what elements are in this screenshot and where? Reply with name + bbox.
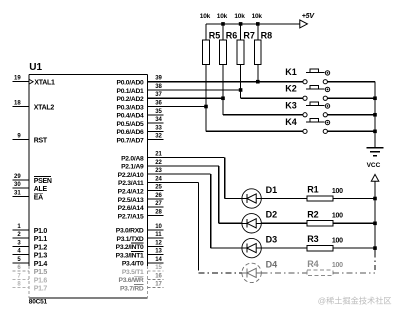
wire P2.2 to D3 xyxy=(147,174,242,248)
svg-text:D1: D1 xyxy=(266,185,278,195)
resistor R8 10k pull-up xyxy=(252,13,273,82)
diode D4 LED xyxy=(242,259,277,282)
U1 reference designator label xyxy=(29,62,42,73)
junction node R8/P0.0 xyxy=(256,80,260,84)
wire K2 to ground bus xyxy=(327,97,375,99)
pin 28 P2.7/A15 xyxy=(118,209,164,220)
svg-text:10k: 10k xyxy=(217,13,228,20)
svg-text:26: 26 xyxy=(155,193,162,199)
junction node R7 top xyxy=(239,22,243,26)
pin 30 ALE xyxy=(13,182,48,193)
svg-text:100: 100 xyxy=(332,237,343,244)
svg-text:15: 15 xyxy=(155,265,162,271)
svg-text:P1.1: P1.1 xyxy=(34,236,48,243)
pin 35 P0.4/AD4 xyxy=(117,109,164,120)
wire D1 to R1 xyxy=(261,198,307,200)
wire K3 to ground bus xyxy=(327,114,375,116)
svg-text:17: 17 xyxy=(155,282,162,288)
svg-text:XTAL1: XTAL1 xyxy=(34,80,55,87)
svg-text:K1: K1 xyxy=(285,67,297,77)
wire R1 to VCC rail xyxy=(333,198,375,200)
svg-text:37: 37 xyxy=(155,92,162,98)
svg-text:P3.7/RD: P3.7/RD xyxy=(120,285,144,292)
pin 29 PSEN xyxy=(13,174,52,185)
pin 5 P1.4 xyxy=(13,257,48,268)
+5V power arrow symbol xyxy=(300,13,316,28)
svg-text:29: 29 xyxy=(14,174,21,180)
resistor R5 10k pull-up xyxy=(200,13,221,106)
switch K2 push button xyxy=(285,84,329,101)
pin 6 P1.5 xyxy=(13,265,48,276)
pin 22 P2.1/A9 xyxy=(121,160,162,171)
svg-text:P2.0/A8: P2.0/A8 xyxy=(121,155,144,162)
svg-text:P0.6/AD6: P0.6/AD6 xyxy=(117,129,145,136)
resistor R1 100 xyxy=(307,185,343,202)
wire K4 to ground bus xyxy=(327,130,375,132)
svg-text:18: 18 xyxy=(14,101,21,107)
pin 32 P0.7/AD7 xyxy=(117,134,164,145)
pin 26 P2.5/A13 xyxy=(118,193,164,204)
svg-text:33: 33 xyxy=(155,125,162,131)
pin 19 XTAL1 xyxy=(13,76,55,87)
svg-text:31: 31 xyxy=(14,190,21,196)
VCC power symbol xyxy=(367,162,381,198)
svg-text:P0.2/AD2: P0.2/AD2 xyxy=(117,96,145,103)
pin 37 P0.2/AD2 xyxy=(117,92,163,103)
pin 9 RST xyxy=(13,134,48,145)
svg-text:P3.4/T0: P3.4/T0 xyxy=(122,261,144,268)
pin 21 P2.0/A8 xyxy=(121,152,162,163)
resistor R7 10k pull-up xyxy=(234,13,255,90)
switch K4 push button xyxy=(285,117,329,134)
svg-text:30: 30 xyxy=(14,182,21,188)
pin 10 P3.0/RXD xyxy=(116,224,164,235)
+5V power rail wire xyxy=(206,23,300,25)
junction node R7/P0.1 xyxy=(239,88,243,92)
wire D3 to R3 xyxy=(261,247,307,249)
pin 8 P1.7 xyxy=(13,282,48,293)
pin 4 P1.3 xyxy=(13,249,48,260)
diode D1 LED xyxy=(242,185,277,208)
pin 34 P0.5/AD5 xyxy=(117,117,164,128)
switch K3 push button xyxy=(285,100,329,117)
wire P0.0 to K1 xyxy=(147,81,303,83)
svg-text:13: 13 xyxy=(155,249,162,255)
svg-text:P0.1/AD1: P0.1/AD1 xyxy=(117,88,145,95)
junction node K4/bus xyxy=(373,130,377,134)
wire D2 to R2 xyxy=(261,222,307,224)
pin 36 P0.3/AD3 xyxy=(117,101,163,112)
svg-text:16: 16 xyxy=(155,273,162,279)
junction node K3/bus xyxy=(373,113,377,117)
svg-text:R4: R4 xyxy=(307,259,319,269)
svg-text:P1.2: P1.2 xyxy=(34,244,48,251)
diode D3 LED xyxy=(242,235,277,258)
svg-text:P2.4/A12: P2.4/A12 xyxy=(118,188,144,195)
svg-text:11: 11 xyxy=(155,232,162,238)
pin 3 P1.2 xyxy=(13,240,48,251)
svg-text:R5: R5 xyxy=(209,30,221,40)
svg-text:36: 36 xyxy=(155,101,162,107)
pin 24 P2.3/A11 xyxy=(118,176,163,187)
svg-text:P2.6/A14: P2.6/A14 xyxy=(118,205,144,212)
resistor R6 10k pull-up xyxy=(217,13,238,98)
svg-text:K4: K4 xyxy=(285,117,297,127)
pin 25 P2.4/A12 xyxy=(118,185,164,196)
svg-text:EA: EA xyxy=(34,194,43,201)
svg-text:+5V: +5V xyxy=(302,13,316,20)
svg-text:XTAL2: XTAL2 xyxy=(34,105,55,112)
svg-text:P2.7/A15: P2.7/A15 xyxy=(118,213,144,220)
svg-text:P0.0/AD0: P0.0/AD0 xyxy=(117,80,145,87)
svg-text:D4: D4 xyxy=(266,259,278,269)
wire D4 to R4 (dashed) xyxy=(261,272,307,274)
switch K1 push button xyxy=(285,67,329,84)
ground xyxy=(367,148,384,156)
svg-text:100: 100 xyxy=(332,188,343,195)
svg-text:P0.5/AD5: P0.5/AD5 xyxy=(117,121,145,128)
svg-text:U1: U1 xyxy=(29,62,42,73)
svg-text:K2: K2 xyxy=(285,84,297,94)
svg-text:P3.6/WR: P3.6/WR xyxy=(118,277,143,284)
svg-text:R2: R2 xyxy=(307,209,319,219)
junction node R2/VCC rail xyxy=(373,222,377,226)
pin 7 P1.6 xyxy=(13,273,48,284)
junction node K2/bus xyxy=(373,96,377,100)
svg-text:34: 34 xyxy=(155,117,162,123)
svg-text:R7: R7 xyxy=(243,30,255,40)
svg-text:P0.3/AD3: P0.3/AD3 xyxy=(117,104,145,111)
svg-text:D2: D2 xyxy=(266,210,278,220)
svg-text:P1.5: P1.5 xyxy=(34,269,48,276)
svg-text:100: 100 xyxy=(332,213,343,220)
wire P2.3 to D4 (dashed) xyxy=(147,182,242,272)
svg-text:R8: R8 xyxy=(261,30,273,40)
wire K1 to ground bus xyxy=(327,81,375,83)
junction node R6 top xyxy=(221,22,225,26)
IC U1 body (80C51 MCU box) xyxy=(29,74,148,298)
svg-text:21: 21 xyxy=(155,152,162,158)
svg-text:P0.7/AD7: P0.7/AD7 xyxy=(117,137,145,144)
svg-text:10k: 10k xyxy=(200,13,211,20)
svg-text:22: 22 xyxy=(155,160,162,166)
svg-text:10: 10 xyxy=(155,224,162,230)
svg-text:28: 28 xyxy=(155,209,162,215)
junction node R1/VCC rail xyxy=(373,197,377,201)
pin 33 P0.6/AD6 xyxy=(117,125,164,136)
wire P0.2 to K3 xyxy=(147,98,303,115)
svg-text:P3.2/INT0: P3.2/INT0 xyxy=(116,244,144,251)
resistor R3 100 xyxy=(307,234,343,251)
svg-text:R3: R3 xyxy=(307,234,319,244)
svg-text:D3: D3 xyxy=(266,235,278,245)
pin 11 P3.1/TXD xyxy=(117,232,164,243)
svg-text:25: 25 xyxy=(155,185,162,191)
svg-text:19: 19 xyxy=(14,76,21,82)
resistor R2 100 xyxy=(307,209,343,226)
resistor R4 100 xyxy=(307,259,343,276)
wire P2.0 to D1 xyxy=(147,158,242,199)
pin 16 P3.6/WR xyxy=(118,273,163,284)
junction node R5/P0.3 xyxy=(204,105,208,109)
svg-text:R6: R6 xyxy=(226,30,238,40)
junction node R3/VCC rail xyxy=(373,246,377,250)
svg-text:10k: 10k xyxy=(252,13,263,20)
wire R3 to VCC rail xyxy=(333,247,375,249)
svg-text:23: 23 xyxy=(155,168,162,174)
pin 38 P0.1/AD1 xyxy=(117,84,163,95)
svg-text:@稀土掘金技术社区: @稀土掘金技术社区 xyxy=(318,295,392,305)
wire P2.1 to D2 xyxy=(147,166,242,223)
pin 14 P3.4/T0 xyxy=(122,257,164,268)
svg-text:P3.5/T1: P3.5/T1 xyxy=(122,269,144,276)
svg-text:P3.0/RXD: P3.0/RXD xyxy=(116,228,144,235)
svg-text:VCC: VCC xyxy=(367,162,381,169)
80C51 value label xyxy=(29,299,48,306)
pin 13 P3.3/INT1 xyxy=(116,249,164,260)
svg-text:K3: K3 xyxy=(285,100,297,110)
svg-text:P3.1/TXD: P3.1/TXD xyxy=(117,236,144,243)
pin 2 P1.1 xyxy=(13,232,48,243)
wire P0.1 to K2 xyxy=(147,90,303,98)
svg-text:P3.3/INT1: P3.3/INT1 xyxy=(116,252,144,259)
wire R4 to VCC rail (dashed) xyxy=(333,272,375,274)
svg-text:14: 14 xyxy=(155,257,162,263)
svg-text:27: 27 xyxy=(155,201,162,207)
svg-text:P2.1/A9: P2.1/A9 xyxy=(121,164,144,171)
svg-text:100: 100 xyxy=(332,262,343,269)
svg-text:P2.2/A10: P2.2/A10 xyxy=(118,172,144,179)
wire P0.3 to K4 xyxy=(147,107,303,132)
junction node R8 top xyxy=(256,22,260,26)
pin 15 P3.5/T1 xyxy=(122,265,164,276)
wire ground bus vertical xyxy=(374,82,376,148)
svg-text:R1: R1 xyxy=(307,185,319,195)
svg-text:35: 35 xyxy=(155,109,162,115)
svg-text:P1.4: P1.4 xyxy=(34,261,48,268)
pin 31 EA xyxy=(13,190,44,201)
pin 27 P2.6/A14 xyxy=(118,201,164,212)
pin 23 P2.2/A10 xyxy=(118,168,163,179)
wire R2 to VCC rail xyxy=(333,222,375,224)
pin 17 P3.7/RD xyxy=(120,282,164,293)
svg-text:12: 12 xyxy=(155,240,162,246)
svg-text:P0.4/AD4: P0.4/AD4 xyxy=(117,113,145,120)
svg-text:RST: RST xyxy=(34,138,48,145)
svg-text:P2.5/A13: P2.5/A13 xyxy=(118,197,144,204)
svg-text:24: 24 xyxy=(155,176,162,182)
svg-text:PSEN: PSEN xyxy=(34,178,52,185)
pin 39 P0.0/AD0 xyxy=(117,76,163,87)
svg-text:P2.3/A11: P2.3/A11 xyxy=(118,180,144,187)
pin 18 XTAL2 xyxy=(13,101,55,112)
svg-text:ALE: ALE xyxy=(34,186,48,193)
wire VCC rail vertical xyxy=(374,199,376,273)
svg-text:10k: 10k xyxy=(234,13,245,20)
svg-text:P1.7: P1.7 xyxy=(34,286,48,293)
svg-text:39: 39 xyxy=(155,76,162,82)
svg-text:P1.6: P1.6 xyxy=(34,277,48,284)
svg-text:80C51: 80C51 xyxy=(29,299,48,306)
svg-text:38: 38 xyxy=(155,84,162,90)
junction node R6/P0.2 xyxy=(221,96,225,100)
pin 1 P1.0 xyxy=(13,224,48,235)
svg-text:P1.3: P1.3 xyxy=(34,253,48,260)
diode D2 LED xyxy=(242,210,277,233)
pin 12 P3.2/INT0 xyxy=(116,240,164,251)
svg-text:P1.0: P1.0 xyxy=(34,228,48,235)
svg-text:32: 32 xyxy=(155,134,162,140)
